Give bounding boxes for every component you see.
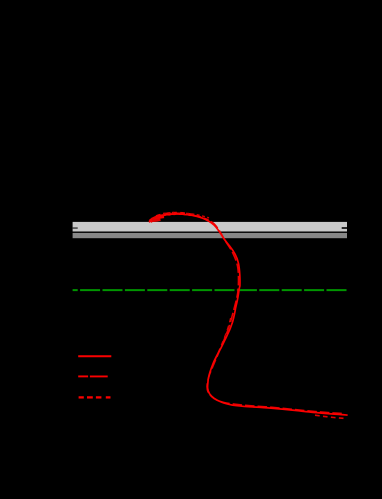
- red dashed curve (expected): [151, 213, 345, 413]
- band lower (dark gray): [73, 233, 347, 238]
- red solid curve (observed): [149, 214, 348, 415]
- right axis tick notch: [342, 227, 347, 229]
- legend solid red line: [78, 355, 111, 357]
- red dotted curve (arc segment): [156, 213, 209, 221]
- red dotted curve (tail segment): [315, 415, 345, 418]
- red noisy blob at arc start: [150, 216, 164, 221]
- red dotted fragments above arc: [163, 212, 174, 215]
- band upper (light gray): [73, 222, 347, 232]
- green dashed horizontal line: [73, 289, 347, 291]
- red dotted curve (steep segment): [210, 318, 231, 374]
- legend dashed red line: [78, 375, 88, 377]
- left axis tick notch: [73, 227, 78, 229]
- legend dotted red line: [79, 396, 84, 398]
